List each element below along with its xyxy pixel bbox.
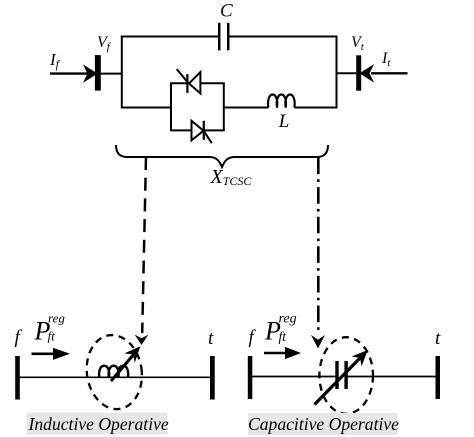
svg-text:Vf: Vf <box>97 34 112 53</box>
svg-text:f: f <box>249 327 257 348</box>
svg-text:t: t <box>435 328 441 349</box>
svg-text:ft: ft <box>48 329 56 344</box>
svg-text:Inductive Operative: Inductive Operative <box>28 414 169 434</box>
svg-text:t: t <box>208 328 214 349</box>
svg-text:Vt: Vt <box>351 34 365 53</box>
svg-text:C: C <box>220 1 233 22</box>
svg-text:reg: reg <box>279 312 297 327</box>
svg-text:f: f <box>15 327 23 348</box>
svg-text:Capacitive Operative: Capacitive Operative <box>248 414 399 434</box>
svg-text:XTCSC: XTCSC <box>210 166 253 188</box>
svg-text:ft: ft <box>279 329 288 344</box>
svg-text:If: If <box>49 50 61 71</box>
svg-text:reg: reg <box>48 311 65 326</box>
svg-text:L: L <box>278 111 290 132</box>
svg-text:It: It <box>381 50 391 69</box>
